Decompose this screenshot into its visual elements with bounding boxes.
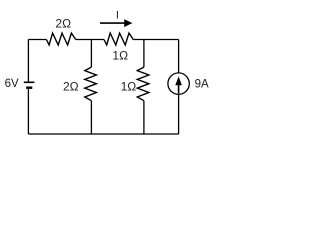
svg-text:I: I xyxy=(116,10,119,22)
wire middle branch lower xyxy=(90,101,92,134)
wire top-left segment xyxy=(28,39,46,41)
svg-text:9A: 9A xyxy=(195,79,209,91)
svg-text:6V: 6V xyxy=(5,78,19,90)
wire bottom xyxy=(28,133,178,135)
svg-text:1Ω: 1Ω xyxy=(121,80,137,94)
wire left branch upper xyxy=(27,40,29,82)
resistor R1 2Ω top horizontal xyxy=(46,33,75,45)
voltage source V1 6V battery long plate xyxy=(24,81,35,83)
wire top-right segment xyxy=(133,39,178,41)
resistor R2 1Ω top horizontal xyxy=(104,33,133,45)
resistor R4 1Ω right vertical xyxy=(137,67,149,101)
voltage source V1 6V battery short plate xyxy=(26,86,32,88)
wire right resistor branch lower xyxy=(143,101,145,134)
current source I1 arrow head xyxy=(175,76,182,85)
svg-text:2Ω: 2Ω xyxy=(63,80,79,94)
wire top-middle segment xyxy=(76,39,104,41)
svg-text:2Ω: 2Ω xyxy=(55,17,71,31)
wire middle branch upper xyxy=(90,40,92,68)
wire current source branch upper xyxy=(178,40,180,73)
current source I1 arrow shaft xyxy=(178,85,180,94)
svg-text:1Ω: 1Ω xyxy=(112,49,128,63)
current arrow I shaft xyxy=(100,22,125,24)
wire current source branch lower xyxy=(178,94,180,134)
current arrow I head xyxy=(124,19,132,27)
resistor R3 2Ω middle vertical xyxy=(85,67,97,101)
wire left branch lower xyxy=(27,89,29,134)
wire right resistor branch upper xyxy=(143,40,145,68)
current source I1 9A circle xyxy=(168,73,189,94)
